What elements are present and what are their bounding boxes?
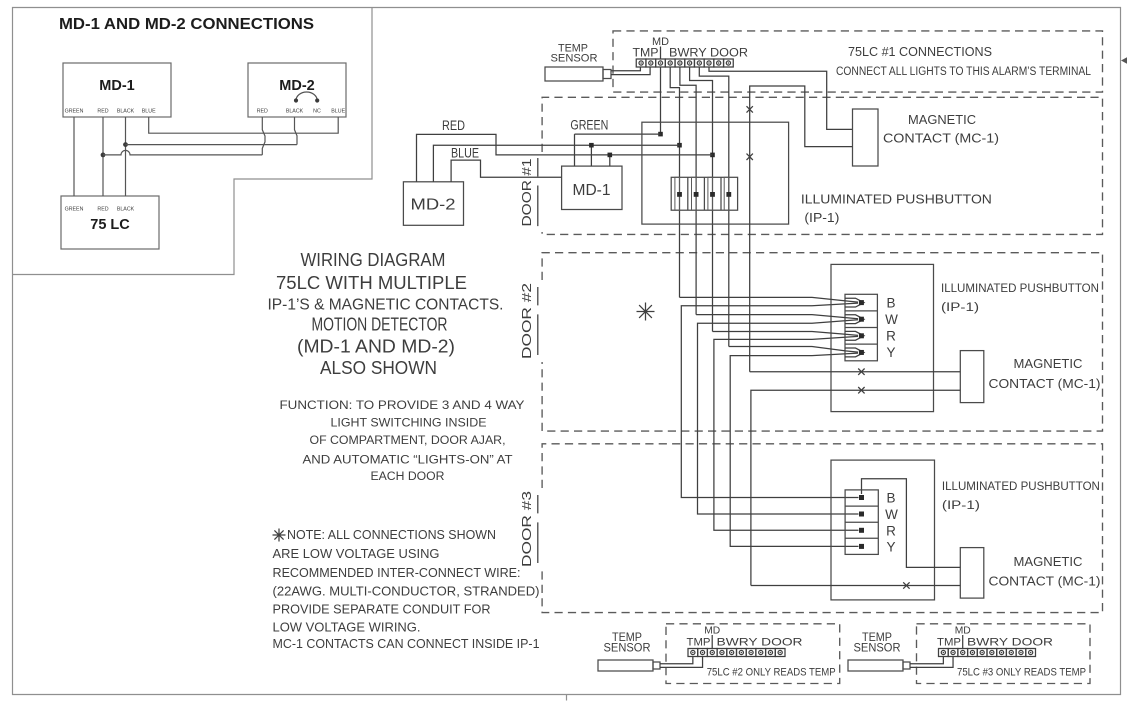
IP-1 #1 terminal marks B W R Y	[677, 192, 682, 197]
svg-text:CONTACT (MC-1): CONTACT (MC-1)	[883, 131, 999, 146]
svg-text:DOOR #2: DOOR #2	[519, 283, 534, 359]
controller 75 LC box	[61, 196, 159, 249]
wire mid net MD-2 to B bus	[433, 145, 679, 182]
svg-text:(MD-1 AND MD-2): (MD-1 AND MD-2)	[297, 337, 455, 357]
svg-text:EACH DOOR: EACH DOOR	[371, 469, 445, 483]
wire RED net to MD-2 (hops)	[103, 117, 265, 155]
wire net R door2 out to door3	[714, 336, 859, 530]
detector MD-1 (inset) box	[63, 63, 171, 117]
wire net B into door2 terminal	[680, 297, 859, 302]
svg-text:AND AUTOMATIC “LIGHTS-ON” AT: AND AUTOMATIC “LIGHTS-ON” AT	[303, 453, 514, 467]
wire BLUE net MD-2 to MD-1	[451, 160, 561, 182]
svg-text:Y: Y	[886, 539, 895, 554]
svg-text:RED: RED	[97, 207, 108, 213]
inset outline step border	[13, 8, 373, 275]
crossing mark MC3	[903, 582, 909, 588]
wire temp sensor to TMP terminal 1	[611, 67, 640, 71]
svg-text:75 LC: 75 LC	[90, 217, 130, 233]
svg-text:OF COMPARTMENT, DOOR AJAR,: OF COMPARTMENT, DOOR AJAR,	[310, 433, 506, 447]
svg-text:CONNECT ALL LIGHTS TO THIS ALA: CONNECT ALL LIGHTS TO THIS ALARM’S TERMI…	[836, 66, 1092, 78]
svg-text:MD-1 AND MD-2 CONNECTIONS: MD-1 AND MD-2 CONNECTIONS	[59, 16, 314, 33]
svg-text:MD-2: MD-2	[411, 197, 456, 214]
svg-text:RED: RED	[442, 118, 465, 133]
svg-text:(IP-1): (IP-1)	[941, 300, 979, 314]
wire net R from strip	[690, 67, 713, 332]
wire GREEN MD-1 to 75LC	[73, 117, 75, 196]
wire MD-1 stub to mid net	[590, 145, 592, 166]
svg-text:CONTACT (MC-1): CONTACT (MC-1)	[989, 376, 1101, 391]
svg-text:MD: MD	[704, 625, 720, 637]
wire DOOR terminal to MC-1 #1	[709, 67, 853, 129]
wire RED net MD-2 to R bus	[417, 134, 713, 181]
svg-text:MAGNETIC: MAGNETIC	[1014, 356, 1083, 371]
svg-text:LOW VOLTAGE WIRING.: LOW VOLTAGE WIRING.	[273, 620, 421, 635]
asterisk note reference	[637, 303, 655, 321]
right edge arrow mark	[1121, 57, 1127, 63]
junction dot GREEN-MD	[658, 132, 663, 137]
svg-text:IP-1’S & MAGNETIC CONTACTS.: IP-1’S & MAGNETIC CONTACTS.	[268, 297, 504, 314]
detector MD-2 (inset) box	[248, 63, 346, 117]
svg-text:DOOR #3: DOOR #3	[519, 491, 534, 567]
svg-text:PROVIDE SEPARATE CONDUIT FOR: PROVIDE SEPARATE CONDUIT FOR	[273, 602, 491, 617]
wire net B from strip	[670, 67, 679, 297]
crossing mark door chain upper	[747, 106, 753, 112]
svg-text:B: B	[886, 491, 895, 506]
crossing mark door chain lower	[747, 154, 753, 160]
svg-text:MD: MD	[652, 36, 669, 48]
illuminated pushbutton IP-1 #1 box	[642, 122, 789, 224]
svg-text:75LC WITH MULTIPLE: 75LC WITH MULTIPLE	[276, 273, 467, 293]
wire net Y door2 out to door3	[730, 353, 858, 546]
wire BLACK net to MD-2 (hop over BLUE)	[126, 117, 298, 145]
crossing mark MC2 upper	[858, 369, 864, 375]
IP-1 #1 terminal inner contacts	[675, 177, 680, 210]
magnetic contact MC-1 #2 box	[960, 351, 984, 403]
svg-text:ARE LOW VOLTAGE USING: ARE LOW VOLTAGE USING	[273, 546, 440, 561]
svg-text:75LC #1 CONNECTIONS: 75LC #1 CONNECTIONS	[848, 44, 992, 59]
junction dot MD-1 mid stub	[589, 143, 594, 148]
junction dot RED	[101, 153, 106, 158]
svg-text:ILLUMINATED PUSHBUTTON: ILLUMINATED PUSHBUTTON	[942, 479, 1100, 493]
wire MC-1 #2 return to door3	[751, 390, 960, 585]
divider line TMP|BWRY strip 1	[660, 47, 662, 60]
underline DOOR #1	[537, 158, 539, 226]
svg-text:Y: Y	[886, 345, 895, 360]
IP-1 #2 terminal strip outline	[845, 294, 877, 361]
wire sensor2 to strip t1	[660, 657, 693, 664]
wire net W into door2 terminal	[696, 315, 858, 319]
terminal strip 75LC #1 (10 terminals)	[636, 59, 646, 67]
IP-1 #1 terminal strip outline	[671, 177, 737, 210]
wire net W from strip	[680, 67, 696, 315]
svg-text:TMP: TMP	[633, 48, 659, 60]
svg-text:SENSOR: SENSOR	[854, 643, 901, 655]
svg-text:BLUE: BLUE	[331, 109, 345, 115]
temp sensor #1 body	[545, 67, 603, 81]
wire sensor3 to strip t1	[910, 657, 943, 664]
wire hook MC-1 #3 to B terminal	[862, 479, 961, 568]
svg-text:BLACK: BLACK	[117, 109, 135, 115]
wire BLACK MD-1 to 75LC	[125, 117, 127, 196]
svg-text:ILLUMINATED PUSHBUTTON: ILLUMINATED PUSHBUTTON	[801, 192, 992, 207]
temp sensor #2 body	[598, 660, 653, 671]
dashed box DOOR #2	[542, 253, 1102, 431]
wire BLUE MD-1 to MD-2	[149, 117, 339, 133]
svg-text:B: B	[886, 296, 895, 311]
crossing mark MC2 lower	[858, 387, 864, 393]
svg-text:(IP-1): (IP-1)	[942, 498, 980, 512]
detector MD-1 box	[562, 166, 622, 209]
svg-text:TMP: TMP	[687, 637, 711, 649]
svg-text:MD-2: MD-2	[279, 78, 314, 94]
svg-text:TMP: TMP	[937, 637, 961, 649]
junction dot MD-1 RED stub	[608, 153, 613, 158]
IP-1 #2 terminal marks	[859, 300, 864, 305]
wire sensor2 to strip t2	[660, 657, 703, 668]
svg-text:BWRY DOOR: BWRY DOOR	[717, 637, 803, 649]
svg-text:ALSO SHOWN: ALSO SHOWN	[320, 358, 437, 378]
dashed box 75LC #3	[917, 624, 1091, 684]
svg-text:CONTACT (MC-1): CONTACT (MC-1)	[989, 574, 1101, 589]
svg-text:BLACK: BLACK	[117, 207, 135, 213]
dashed box DOOR #3	[542, 444, 1102, 613]
svg-text:GREEN: GREEN	[570, 118, 608, 133]
wire door chain into MC-1 #2	[750, 371, 961, 373]
wire net B door2 out to door3	[681, 303, 858, 497]
IP-1 #3 terminal marks	[859, 495, 864, 500]
wire MD terminal to GREEN junction	[660, 67, 662, 134]
bottom edge tick	[566, 695, 568, 701]
jumper BLACK-NC on MD-2	[296, 92, 317, 101]
svg-text:MC-1 CONTACTS CAN CONNECT INSI: MC-1 CONTACTS CAN CONNECT INSIDE IP-1	[273, 636, 540, 651]
svg-text:(22AWG. MULTI-CONDUCTOR, STRAN: (22AWG. MULTI-CONDUCTOR, STRANDED)	[273, 584, 540, 599]
svg-text:W: W	[885, 507, 898, 522]
svg-text:MOTION DETECTOR: MOTION DETECTOR	[312, 315, 448, 335]
wire MD-1 stub to RED net	[609, 155, 611, 166]
svg-text:SENSOR: SENSOR	[604, 643, 651, 655]
svg-text:W: W	[885, 312, 898, 327]
svg-text:R: R	[886, 523, 896, 538]
wire temp sensor to TMP terminal 2	[611, 67, 650, 75]
svg-text:WIRING DIAGRAM: WIRING DIAGRAM	[301, 250, 446, 270]
svg-text:NC: NC	[313, 109, 321, 115]
magnetic contact MC-1 #3 box	[960, 548, 984, 599]
junction dot net R	[710, 153, 715, 158]
illuminated pushbutton IP-1 #2 box	[831, 264, 934, 411]
svg-text:LIGHT SWITCHING INSIDE: LIGHT SWITCHING INSIDE	[331, 416, 487, 430]
svg-text:RED: RED	[257, 109, 268, 115]
temp sensor #3 body	[848, 660, 903, 671]
terminal strip 75LC #2	[688, 649, 698, 657]
wire net W door2 out to door3	[698, 320, 859, 514]
IP-1 #2 terminal arrows	[845, 298, 864, 307]
svg-text:GREEN: GREEN	[65, 109, 84, 115]
svg-text:BWRY DOOR: BWRY DOOR	[967, 637, 1053, 649]
IP-1 #3 terminal strip outline	[845, 490, 878, 555]
svg-text:MAGNETIC: MAGNETIC	[1014, 554, 1083, 569]
svg-text:MAGNETIC: MAGNETIC	[908, 112, 976, 127]
svg-text:NOTE: ALL CONNECTIONS SHOWN: NOTE: ALL CONNECTIONS SHOWN	[287, 527, 496, 542]
wire MC-1 #1 return to door chain	[750, 86, 853, 372]
svg-text:(IP-1): (IP-1)	[804, 210, 839, 225]
wire net Y from strip	[699, 67, 729, 347]
svg-text:BWRY DOOR: BWRY DOOR	[669, 48, 748, 60]
svg-text:RED: RED	[97, 109, 108, 115]
svg-text:BLUE: BLUE	[451, 146, 479, 161]
divider strip 3	[962, 635, 964, 649]
svg-text:FUNCTION: TO PROVIDE 3 AND 4 W: FUNCTION: TO PROVIDE 3 AND 4 WAY	[280, 398, 525, 412]
dashed box 75LC #1 CONNECTIONS	[613, 31, 1103, 92]
svg-text:BLACK: BLACK	[286, 109, 304, 115]
dashed box DOOR #1	[542, 97, 1102, 234]
wire GREEN MD-1 stub	[575, 134, 661, 166]
svg-text:MD-1: MD-1	[573, 182, 611, 199]
underline DOOR #3	[537, 495, 539, 563]
svg-text:MD: MD	[955, 625, 971, 637]
terminal strip 75LC #3	[939, 649, 949, 657]
svg-text:GREEN: GREEN	[65, 207, 84, 213]
svg-text:BLUE: BLUE	[142, 109, 156, 115]
detector MD-2 box	[403, 182, 463, 226]
svg-text:ILLUMINATED PUSHBUTTON: ILLUMINATED PUSHBUTTON	[941, 281, 1099, 295]
underline DOOR #2	[537, 287, 539, 355]
illuminated pushbutton IP-1 #3 box	[831, 460, 935, 600]
junction dot net B	[677, 143, 682, 148]
wire sensor3 to strip t2	[910, 657, 953, 668]
note asterisk symbol	[273, 529, 286, 542]
svg-text:75LC #2 ONLY READS TEMP: 75LC #2 ONLY READS TEMP	[707, 667, 836, 679]
svg-text:75LC #3 ONLY READS TEMP: 75LC #3 ONLY READS TEMP	[957, 667, 1086, 679]
dashed box 75LC #2	[666, 624, 840, 684]
magnetic contact MC-1 #1 box	[853, 109, 879, 166]
svg-text:RECOMMENDED INTER-CONNECT WIRE: RECOMMENDED INTER-CONNECT WIRE:	[273, 565, 521, 580]
junction dot BLACK	[123, 142, 128, 147]
svg-text:SENSOR: SENSOR	[551, 53, 598, 65]
svg-text:MD-1: MD-1	[99, 78, 134, 94]
wire door chain into MC-1 #3	[751, 585, 960, 587]
divider strip 2	[711, 635, 713, 649]
svg-text:DOOR #1: DOOR #1	[519, 159, 534, 227]
wire net R into door2 terminal	[713, 332, 859, 336]
svg-text:R: R	[886, 329, 896, 344]
wire RED MD-1 to 75LC	[102, 117, 104, 196]
wire net Y into door2 terminal	[729, 347, 858, 353]
